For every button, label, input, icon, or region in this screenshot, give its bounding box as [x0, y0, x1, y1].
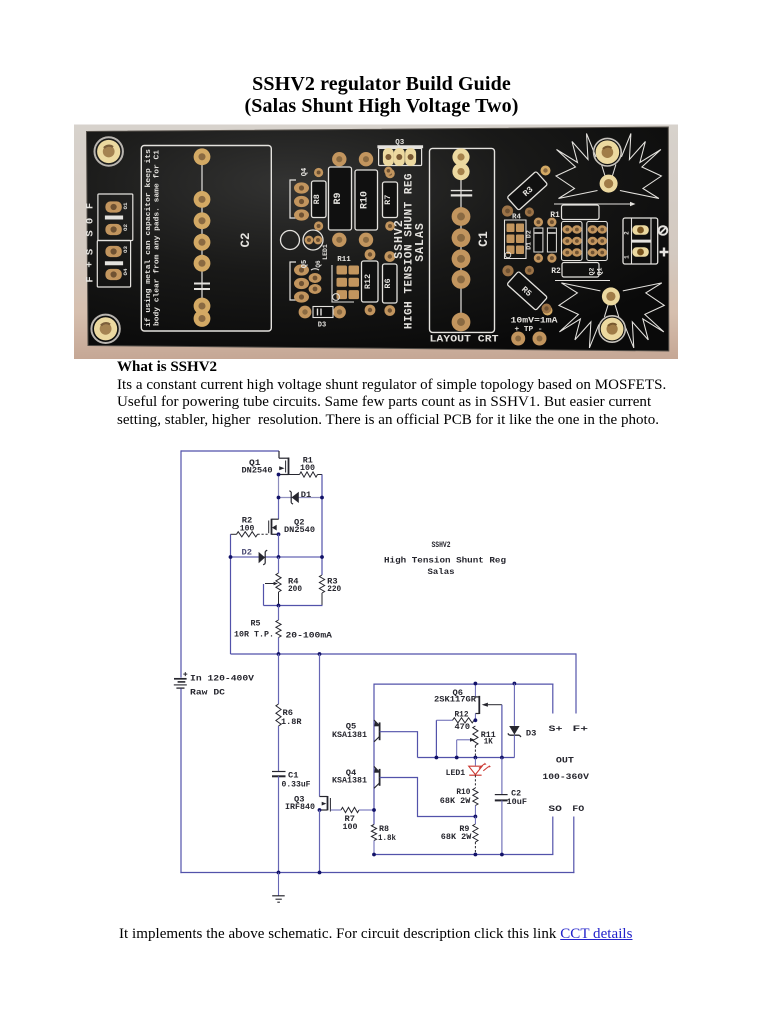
label R1 100	[300, 456, 315, 473]
resistor R9	[329, 152, 352, 247]
label LED1	[446, 769, 466, 778]
node R8 bottom junction	[372, 853, 376, 857]
C1 pads column	[451, 148, 472, 331]
wire D1 row	[279, 497, 323, 499]
connector F0 S0 S+ F+	[97, 194, 133, 287]
wire D2 to R4	[278, 557, 280, 573]
label S+ F+ terminals	[549, 724, 589, 734]
wire R12 left drop	[435, 720, 437, 757]
C2 note text rotated	[145, 149, 162, 327]
R2 footprint	[551, 263, 599, 278]
node shunt bottom junction	[277, 871, 281, 875]
Q3 footprint top	[377, 139, 423, 175]
svg-text:SSHV2: SSHV2	[432, 541, 451, 550]
wire emitter rail	[373, 684, 375, 825]
resistor R12 470	[436, 718, 474, 723]
svg-text:1K: 1K	[484, 737, 493, 746]
wire inner bottom row to SO	[374, 817, 553, 855]
node D3 top junction	[513, 682, 517, 686]
label R5 10R T.P.	[234, 619, 333, 640]
svg-text:100: 100	[300, 464, 315, 473]
label C2 10uF	[507, 790, 528, 807]
svg-text:68K 2W: 68K 2W	[440, 797, 471, 806]
resistor R5 rotated	[507, 271, 548, 310]
label R3 220	[327, 577, 341, 594]
resistor R2 100	[231, 532, 258, 537]
resistor R12	[362, 249, 379, 315]
node R5 bottom junction	[277, 652, 281, 656]
label R12 470	[455, 711, 471, 733]
svg-text:R6: R6	[283, 709, 294, 718]
svg-text:D1: D1	[301, 491, 312, 500]
resistor R6 1.8R	[276, 704, 281, 726]
transistor Q6 2SK117GR	[475, 684, 502, 721]
node row C2 junction	[500, 756, 504, 760]
svg-text:IRF840: IRF840	[285, 803, 315, 812]
node Q6 drain junction	[474, 682, 478, 686]
LED1 footprint	[303, 230, 329, 260]
resistor R10 68K 2W	[473, 775, 478, 816]
heatsink top pad2	[600, 175, 618, 193]
wire left rail lower	[180, 689, 182, 874]
transistor Q2 DN2540	[269, 519, 279, 535]
svg-text:D2: D2	[242, 548, 253, 557]
svg-text:F+: F+	[573, 724, 589, 734]
wire R6 to C1	[278, 726, 280, 771]
resistor R8 1.8k	[371, 825, 376, 855]
svg-text:OUT: OUT	[556, 756, 574, 766]
Q4 footprint	[290, 168, 309, 221]
silk text HIGH TENSION SHUNT REG	[404, 173, 416, 329]
svg-text:Salas: Salas	[428, 567, 455, 577]
R11 trimmer footprint	[332, 256, 359, 302]
capacitor C1 footprint box	[430, 148, 495, 332]
trimmer R4 200	[265, 573, 281, 606]
big cap circle	[281, 231, 300, 250]
misc pads left of R1	[525, 207, 534, 275]
label Q2	[284, 519, 315, 535]
svg-text:100-360V: 100-360V	[542, 772, 590, 782]
svg-text:68K 2W: 68K 2W	[441, 833, 472, 842]
svg-text:10R T.P.: 10R T.P.	[234, 631, 274, 640]
label Q5 KSA1381	[332, 723, 367, 740]
label R6 1.8R	[281, 709, 302, 727]
label D3	[526, 729, 537, 738]
svg-text:High Tension Shunt Reg: High Tension Shunt Reg	[384, 555, 506, 565]
node Q1 source junction	[277, 473, 281, 477]
R1 footprint	[550, 205, 599, 220]
silk text LAYOUT CRT	[430, 334, 499, 346]
wire right sub rail (R1 to D1 to R3)	[321, 475, 323, 576]
wire Q2 source to D2 row	[278, 534, 280, 557]
wire D2 row	[231, 556, 323, 558]
svg-text:0.33uF: 0.33uF	[282, 781, 311, 790]
label OUT 100-360V	[542, 756, 590, 782]
label Q6 2SK117GR	[434, 689, 476, 704]
wire Q4 base path	[380, 778, 476, 817]
label C1 0.33uF	[282, 772, 311, 790]
node R10 R9 junction	[474, 815, 478, 819]
silk text SALAS	[414, 222, 427, 262]
svg-text:SO: SO	[548, 804, 562, 814]
battery label In 120-400V Raw DC	[190, 674, 255, 698]
node D1 right junction	[320, 496, 324, 500]
output labels 0 +	[659, 226, 669, 256]
trimmer R11 1K	[457, 726, 478, 758]
label R9 68K 2W	[441, 825, 472, 842]
label Q4 KSA1381	[332, 769, 367, 786]
node Q3 column top junction	[318, 652, 322, 656]
Q5 Q6 footprint	[290, 260, 322, 303]
heatsink bottom hole	[599, 316, 625, 342]
label Q3 IRF840	[285, 795, 315, 812]
mounting hole bottom-left	[91, 315, 119, 343]
node D1 left junction	[277, 496, 281, 500]
pcb board	[87, 127, 669, 351]
svg-text:R10: R10	[456, 788, 470, 797]
wire top rail to S+	[374, 684, 553, 714]
resistor R1 100	[289, 472, 323, 477]
svg-text:D3: D3	[526, 729, 537, 738]
TP pads	[511, 332, 546, 346]
svg-text:KSA1381: KSA1381	[332, 731, 367, 740]
svg-text:FO: FO	[572, 804, 584, 814]
svg-text:KSA1381: KSA1381	[332, 777, 367, 786]
label Q1	[242, 459, 273, 476]
node row Q5base junction	[435, 756, 439, 760]
wire Q3 drain column	[319, 654, 321, 797]
wire R4 R3 bottom row	[264, 584, 323, 606]
node R9 bottom junction	[474, 853, 478, 857]
svg-text:1.8k: 1.8k	[378, 834, 396, 843]
resistor R3 rotated	[507, 171, 548, 210]
label R4 200	[288, 577, 302, 594]
label C2	[239, 232, 253, 247]
node row R11 wiper junction	[455, 756, 459, 760]
resistor R7	[383, 169, 398, 231]
svg-text:20-100mA: 20-100mA	[286, 631, 334, 641]
resistor R9 68K 2W	[473, 817, 478, 855]
resistor R8	[312, 168, 327, 231]
node row LED junction	[474, 756, 478, 760]
silk text SSHV2	[393, 219, 406, 259]
mounting hole top-left	[95, 137, 123, 165]
wire junction row	[418, 757, 515, 759]
node D2 right junction	[320, 555, 324, 559]
resistor R10	[355, 152, 378, 247]
R4 D1 D2 block	[505, 214, 557, 263]
node Q3 source junction	[318, 808, 322, 812]
heatsink top fins	[556, 134, 661, 199]
ground	[272, 873, 285, 903]
wire C1 to bottom rail	[278, 776, 280, 872]
wire CCS spine upper	[278, 475, 280, 520]
wire Q5 base path	[380, 732, 418, 758]
wire Q2 gate lead	[258, 533, 269, 535]
resistor R7 100	[330, 807, 374, 812]
silk text 10mV=1mA TP	[511, 317, 558, 335]
svg-text:10uF: 10uF	[507, 798, 528, 807]
C2 pads column	[194, 148, 211, 326]
svg-text:R8: R8	[379, 825, 389, 834]
label R10 68K 2W	[440, 788, 471, 806]
wire Q6 gate drop	[501, 705, 503, 758]
svg-text:2SK117GR: 2SK117GR	[434, 696, 476, 705]
svg-text:Raw DC: Raw DC	[190, 688, 225, 698]
label R8 1.8k	[378, 825, 396, 843]
label D1	[301, 491, 312, 500]
label schematic title SSHV2	[384, 541, 506, 577]
label R11 1K	[481, 731, 496, 746]
svg-text:220: 220	[327, 585, 341, 594]
svg-text:R5: R5	[251, 619, 261, 628]
svg-text:100: 100	[240, 524, 255, 533]
heatsink bottom pad	[602, 287, 620, 305]
resistor R6	[383, 251, 398, 316]
transistor Q3 IRF840	[320, 796, 331, 812]
label R2 100	[240, 517, 255, 534]
silk section lines	[554, 202, 636, 281]
wire bottom rail	[180, 872, 574, 874]
wire R2 left drop	[230, 534, 232, 654]
wire top rail left	[181, 450, 279, 677]
heatsink bottom fins	[559, 283, 664, 348]
capacitor C1 0.33uF	[272, 772, 286, 777]
transistor Q4 KSA1381	[374, 766, 380, 788]
LED LED1	[469, 758, 491, 776]
svg-text:In 120-400V: In 120-400V	[190, 674, 255, 684]
diode D3 footprint	[299, 306, 346, 330]
label D2	[242, 548, 253, 557]
node Q2 source junction	[277, 532, 281, 536]
svg-text:DN2540: DN2540	[242, 467, 273, 476]
node Q3 bottom junction	[318, 871, 322, 875]
wire shunt column upper	[278, 654, 280, 704]
heatsink top hole	[594, 138, 622, 166]
svg-text:200: 200	[288, 585, 302, 594]
label R7 100	[343, 815, 358, 832]
resistor R5 10R	[276, 606, 281, 655]
diode D2 zener	[259, 550, 268, 565]
svg-text:LED1: LED1	[446, 769, 466, 778]
svg-text:100: 100	[343, 823, 358, 832]
svg-text:S+: S+	[549, 724, 563, 734]
svg-text:C1: C1	[288, 772, 299, 781]
node R5 top junction	[277, 604, 281, 608]
diode D3 zener	[508, 684, 521, 758]
battery B1 In 120-400V	[174, 672, 188, 688]
svg-text:1.8R: 1.8R	[281, 718, 302, 727]
label C1	[476, 231, 491, 247]
svg-text:R12: R12	[455, 711, 469, 720]
Q1 Q2 SOT pads	[562, 222, 608, 276]
label SO FO terminals	[548, 804, 584, 814]
capacitor C2 footprint box	[141, 146, 271, 332]
output connector	[623, 218, 658, 264]
wire long mid rail to F+	[231, 653, 577, 713]
capacitor C2 10uF	[495, 758, 508, 855]
transistor Q1 DN2540	[279, 451, 289, 475]
wire Q3 source down	[319, 810, 321, 873]
node D2 mid junction	[277, 555, 281, 559]
node C2 bottom junction	[500, 853, 504, 857]
resistor R3 220	[319, 575, 324, 606]
node D2 left junction	[229, 555, 233, 559]
node R7 R8 junction	[372, 808, 376, 812]
transistor Q5 KSA1381	[374, 720, 380, 742]
node R12 Q6 junction	[474, 718, 478, 722]
diode D1 zener	[289, 491, 298, 504]
connector labels F0S0S+F+	[84, 202, 129, 283]
svg-text:DN2540: DN2540	[284, 526, 315, 535]
misc right pads	[542, 304, 552, 314]
svg-text:470: 470	[455, 723, 471, 732]
wire FO riser	[573, 817, 575, 874]
